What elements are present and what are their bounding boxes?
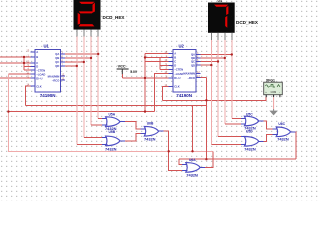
svg-text:U6B: U6B <box>147 121 154 125</box>
wire MAX/MIN U2 <box>196 77 206 79</box>
svg-text:U5C: U5C <box>246 113 253 117</box>
svg-text:U4: U4 <box>218 0 222 3</box>
counter U2 74190N <box>165 50 201 93</box>
wire tap D U2 <box>160 64 169 66</box>
svg-text:B: B <box>174 56 176 60</box>
svg-text:MAX/MIN: MAX/MIN <box>48 74 60 78</box>
svg-text:QD: QD <box>191 63 195 67</box>
wire net B input U1 <box>0 56 31 58</box>
counter U1 74190N <box>27 50 66 93</box>
wire ~LOAD U1 <box>8 73 30 75</box>
wire clock to XFG1 <box>162 97 266 100</box>
wire QB U2 <box>196 57 225 59</box>
svg-text:QC: QC <box>191 60 195 64</box>
or gate U5D 7432N <box>241 137 264 147</box>
VCC source <box>117 64 138 78</box>
display U4 pins <box>211 33 232 40</box>
wire drop x192 <box>192 105 194 151</box>
svg-text:U2: U2 <box>179 44 185 49</box>
wire QD U2 <box>196 64 211 66</box>
svg-text:~RCO: ~RCO <box>187 76 195 80</box>
wire tap ~CTEN U2 <box>160 69 169 71</box>
svg-text:5.0V: 5.0V <box>130 70 138 74</box>
seven segment display U4 <box>208 3 235 33</box>
or gate U5B 7432N <box>102 136 125 146</box>
svg-text:DCD_HEX: DCD_HEX <box>103 15 126 20</box>
function generator XFG1 <box>264 79 283 98</box>
wire U5C out to U6C in1 <box>259 121 272 129</box>
svg-text:U6A: U6A <box>189 158 196 162</box>
wire U6A out <box>200 151 213 167</box>
svg-text:MAX/MIN: MAX/MIN <box>183 72 195 76</box>
svg-text:QA: QA <box>191 53 195 57</box>
svg-text:QD: QD <box>55 64 59 68</box>
seven segment display U3 <box>74 0 101 30</box>
svg-text:DCD_HEX: DCD_HEX <box>236 20 259 25</box>
svg-text:A: A <box>36 50 38 54</box>
svg-text:QC: QC <box>55 60 59 64</box>
wire VCC vertical x145 <box>144 53 146 111</box>
wire tap C U2 <box>145 61 169 63</box>
wire CLK U1 stub run <box>26 86 31 105</box>
wire U5A out to U6B in1 <box>125 122 141 129</box>
svg-text:COM: COM <box>271 91 277 94</box>
wire QA U2 to display <box>196 54 232 56</box>
wire A U2 <box>145 52 169 54</box>
svg-text:74190N: 74190N <box>40 93 56 98</box>
wire D/~U U1 <box>0 77 31 79</box>
svg-text:7432N: 7432N <box>186 173 198 178</box>
display U3 pins <box>77 30 98 37</box>
svg-text:U1: U1 <box>44 44 50 49</box>
svg-text:D/~U: D/~U <box>36 77 42 81</box>
wire U5B out to U6B in2 <box>125 134 141 141</box>
junction dots <box>23 56 25 58</box>
wire B U2 <box>145 57 169 59</box>
wire tap ~CTEN U1 <box>24 69 31 71</box>
or gate U6C 7432N <box>273 127 296 137</box>
svg-text:D: D <box>36 65 38 69</box>
svg-text:D: D <box>174 64 176 68</box>
svg-text:U6C: U6C <box>278 122 285 126</box>
svg-text:7432N: 7432N <box>144 137 156 142</box>
svg-text:B: B <box>36 55 38 59</box>
svg-text:CLK: CLK <box>174 85 180 89</box>
svg-text:VCC: VCC <box>118 64 126 68</box>
svg-text:7432N: 7432N <box>244 146 256 151</box>
wire U6C out feedback <box>291 132 296 159</box>
svg-text:7432N: 7432N <box>277 137 289 142</box>
wire VCC feed D/~U U2 <box>122 77 168 79</box>
wire load bus H2 <box>8 111 154 113</box>
svg-text:D/~U: D/~U <box>174 76 180 80</box>
svg-text:~LOAD: ~LOAD <box>174 72 183 76</box>
wire U6B out to U6A in2 <box>159 131 182 170</box>
wire QA U1 to display <box>61 53 98 55</box>
svg-text:U5B: U5B <box>109 130 116 134</box>
wire QC U1 <box>61 61 84 63</box>
wire ~LOAD rail vertical x8 <box>8 74 213 151</box>
svg-text:~LOAD: ~LOAD <box>36 73 45 77</box>
wire QD U1 <box>61 65 77 67</box>
or gate U6B 7432N <box>141 126 164 136</box>
wire clock bus H1 <box>26 104 207 106</box>
svg-text:-: - <box>279 91 280 94</box>
svg-text:~CTEN: ~CTEN <box>174 68 183 72</box>
wire CLK U2 <box>162 86 168 100</box>
wire net C input U1 <box>0 62 31 64</box>
svg-text:C: C <box>174 60 176 64</box>
wire clock drop x206 <box>205 78 207 160</box>
or gate U6A 7432N <box>182 163 205 173</box>
wire tie vertical U2 x160 <box>159 58 161 70</box>
ground symbol <box>269 97 277 115</box>
wire QB U1 <box>61 57 91 59</box>
wire vertical tie B-C-D-CTEN U1 <box>23 57 25 70</box>
wire U5D out to U6C in2 <box>259 134 272 141</box>
svg-text:CLK: CLK <box>36 84 42 88</box>
svg-text:C: C <box>36 61 38 65</box>
svg-text:74190N: 74190N <box>176 93 192 98</box>
svg-text:~RCO: ~RCO <box>52 78 60 82</box>
wire feedback bus H159 <box>179 158 296 160</box>
wire QC U2 <box>196 61 218 63</box>
or gate U5A 7432N <box>102 117 125 127</box>
svg-text:QB: QB <box>191 56 195 60</box>
svg-text:U5D: U5D <box>246 130 253 134</box>
svg-text:~CTEN: ~CTEN <box>36 69 45 73</box>
svg-text:U5A: U5A <box>109 112 116 116</box>
svg-text:QA: QA <box>55 52 59 56</box>
svg-text:7432N: 7432N <box>105 147 117 152</box>
svg-text:QB: QB <box>55 56 59 60</box>
wire U6A in1 feed <box>179 159 182 164</box>
or gate U5C 7432N <box>241 116 264 126</box>
svg-text:A: A <box>174 52 176 56</box>
wire tap D U1 <box>24 66 31 68</box>
wire ~LOAD U2 <box>155 74 169 112</box>
